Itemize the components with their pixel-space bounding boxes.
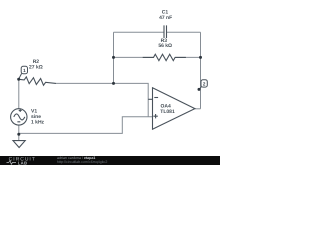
voltage source V1 bbox=[11, 109, 27, 125]
svg-text:LAB: LAB bbox=[18, 160, 28, 165]
footer logo CIRCUIT LAB bbox=[7, 157, 36, 166]
resistor R2 bbox=[18, 76, 56, 86]
footer bar bbox=[0, 156, 220, 165]
wire R3 row bbox=[114, 56, 201, 58]
wire left feedback vertical bbox=[113, 32, 115, 83]
svg-text:2: 2 bbox=[203, 82, 206, 87]
svg-text:http://circuitlab.com/c6mq4gkc: http://circuitlab.com/c6mq4gkc2 bbox=[57, 160, 107, 164]
wire R2/feedback node to op-amp input column bbox=[56, 83, 148, 116]
node junction dot V1/ground bbox=[17, 133, 20, 136]
svg-text:1 kHz: 1 kHz bbox=[31, 119, 45, 125]
node junction dot R3 left bbox=[112, 56, 115, 59]
resistor R3 bbox=[143, 54, 186, 60]
svg-text:47 nF: 47 nF bbox=[159, 15, 172, 21]
wire V1 top bbox=[18, 79, 20, 109]
capacitor C1 bbox=[164, 25, 167, 38]
wire op-amp output bbox=[195, 108, 201, 110]
wire top feedback bbox=[114, 31, 201, 33]
wire right vertical bbox=[200, 32, 202, 109]
op-amp OA4 bbox=[148, 88, 195, 129]
wire ground to non-inverting input bbox=[19, 117, 153, 134]
svg-text:56 kΩ: 56 kΩ bbox=[158, 43, 172, 49]
wire V1 bottom to ground bbox=[18, 125, 20, 141]
svg-text:27 kΩ: 27 kΩ bbox=[29, 65, 43, 71]
svg-text:TL081: TL081 bbox=[160, 109, 175, 115]
node junction dot R2/feedback bbox=[112, 82, 115, 85]
ground bbox=[13, 141, 25, 148]
footer credits text bbox=[57, 156, 107, 164]
port flag 2 bbox=[198, 80, 208, 91]
node junction dot R3 right bbox=[199, 56, 202, 59]
port flag 1 bbox=[17, 66, 27, 80]
svg-text:1: 1 bbox=[23, 68, 26, 73]
